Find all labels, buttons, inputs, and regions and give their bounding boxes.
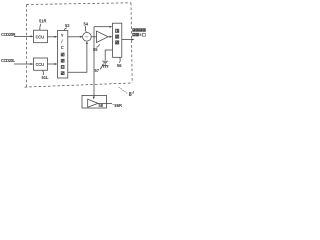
svg-text:/: / <box>61 39 63 44</box>
svg-text:CCD20L: CCD20L <box>1 58 15 63</box>
battery stem <box>104 63 106 66</box>
op-amp U55 <box>97 31 109 42</box>
comparator kanji 比 <box>115 29 119 33</box>
wire CCU L to Y/C <box>48 63 56 65</box>
leader 56 <box>118 58 121 63</box>
svg-text:57: 57 <box>95 68 100 73</box>
svg-text:Y: Y <box>61 33 64 38</box>
svg-text:51R: 51R <box>39 18 47 23</box>
Y/C kanji 分 <box>61 53 65 57</box>
svg-text:CCU: CCU <box>36 34 45 39</box>
dashed enclosure box 8' <box>25 3 133 87</box>
leader 55 <box>97 44 100 47</box>
leader 57 <box>100 64 103 69</box>
adder circle U54 <box>83 33 92 42</box>
svg-text:CCD20R: CCD20R <box>1 32 15 37</box>
svg-text:54: 54 <box>84 21 89 26</box>
Y/C kanji 離 <box>61 59 65 63</box>
wire junction vertical line <box>93 27 95 97</box>
wire CCU R to Y/C <box>48 36 56 38</box>
CCU R box U51R <box>34 30 48 43</box>
op-amp U58 <box>88 99 98 107</box>
label 回路5へ <box>132 33 145 37</box>
leader 51L <box>42 70 45 75</box>
comparator kanji 較 <box>115 35 119 39</box>
CCU L box U51L <box>34 58 48 70</box>
comparator block U56 <box>113 23 122 57</box>
svg-text:C: C <box>61 45 64 50</box>
svg-text:55: 55 <box>93 47 98 52</box>
wire junction to comparator top input <box>94 26 110 28</box>
leader 51R <box>40 24 41 30</box>
svg-text:5: 5 <box>139 33 141 37</box>
wire CCD20R to CCU R <box>14 35 31 37</box>
Y/C kanji 回 <box>61 65 65 69</box>
comparator kanji 器 <box>115 40 119 44</box>
svg-text:51L: 51L <box>42 75 50 80</box>
svg-text:8: 8 <box>129 92 132 98</box>
wire C out to adder bottom <box>68 44 87 73</box>
ground <box>102 66 108 68</box>
wire comparator ref input <box>105 50 112 60</box>
svg-text:26R: 26R <box>115 103 123 108</box>
amp 58 enclosure box <box>82 95 107 108</box>
battery V57 plate long <box>102 60 108 62</box>
wire into amp 58 <box>93 97 95 100</box>
svg-text:56: 56 <box>117 63 122 68</box>
wire CCD20L to CCU L <box>14 63 31 65</box>
wire Y out to adder <box>68 36 81 38</box>
leader tilde 26R <box>113 104 117 105</box>
Y/C kanji 路 <box>61 71 65 75</box>
leader 52 <box>64 28 66 31</box>
label 8' leader <box>119 87 128 94</box>
svg-text:CCU: CCU <box>36 62 45 67</box>
wire amp 58 output <box>98 102 112 104</box>
wire adder to amp 55 <box>91 36 96 38</box>
leader 54 <box>84 26 87 32</box>
wire comparator output <box>122 39 132 41</box>
Y/C separation block U52 <box>58 31 68 79</box>
label to signal switching circuit 5: 信号切替 <box>132 28 145 31</box>
battery V57 plate short <box>103 62 107 64</box>
wire amp 55 to comparator <box>108 36 110 38</box>
svg-text:52: 52 <box>65 23 70 28</box>
